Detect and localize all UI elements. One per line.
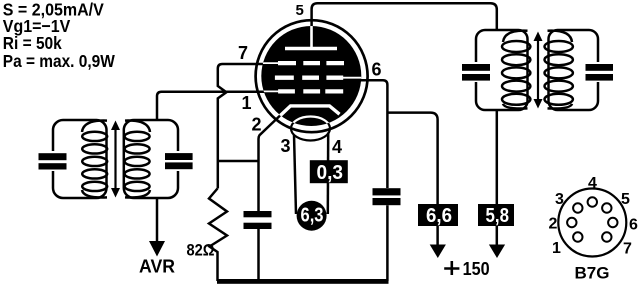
resistor 82ohm [209, 189, 227, 282]
B7G pin 7 [602, 232, 611, 241]
value box 5,8 [478, 204, 514, 226]
grid g3 row [261, 62, 279, 64]
capacitor left of right transformer [473, 62, 480, 82]
svg-text:0,3: 0,3 [317, 162, 344, 184]
arrow 5,8 to +150 [496, 226, 499, 247]
svg-text:82Ω: 82Ω [187, 241, 215, 260]
svg-text:1: 1 [242, 93, 252, 113]
wire pin2 cathode down [259, 116, 281, 211]
left transformer primary coil [82, 121, 107, 198]
cathode capacitor [257, 229, 260, 281]
B7G pin 5 [602, 203, 611, 212]
+150 label [444, 261, 459, 275]
grid g1 row [261, 90, 279, 92]
wire pin7 down to resistor [218, 64, 264, 189]
right transformer secondary coil [545, 31, 573, 109]
B7G base outline [558, 189, 626, 257]
svg-text:B7G: B7G [575, 264, 610, 283]
anode lead [310, 26, 313, 49]
capacitor right of left transformer [176, 151, 183, 171]
svg-text:5,8: 5,8 [486, 205, 510, 227]
arrow 6,6 to +150 [436, 226, 439, 247]
svg-text:2: 2 [252, 115, 262, 135]
svg-text:4: 4 [588, 175, 597, 192]
heater loop white arc [291, 117, 330, 141]
heater loop black arc [291, 117, 330, 141]
B7G pin 1 [573, 232, 582, 241]
svg-text:6,3: 6,3 [301, 205, 324, 227]
svg-text:Pa = max. 0,9W: Pa = max. 0,9W [3, 51, 115, 71]
svg-text:7: 7 [623, 241, 632, 258]
wire cathode junction link [218, 160, 259, 163]
left transformer secondary box [124, 120, 178, 198]
svg-text:4: 4 [332, 137, 342, 157]
svg-text:2: 2 [549, 216, 558, 233]
svg-text:150: 150 [463, 258, 490, 279]
svg-text:5: 5 [621, 191, 630, 208]
right transformer tuning arrow [537, 38, 539, 102]
wire pin5 to right transformer [312, 3, 497, 30]
svg-text:7: 7 [238, 43, 248, 63]
capacitor left (edge patch) [50, 151, 57, 171]
wire heater pin4 [327, 133, 330, 215]
tube electrodes (white on black) [261, 26, 362, 141]
svg-text:AVR: AVR [139, 257, 175, 277]
wire heater pin3 [294, 135, 296, 215]
left transformer secondary coil [125, 121, 150, 198]
svg-text:3: 3 [555, 191, 564, 208]
wire 5,8 from right transformer [496, 110, 499, 204]
cathode [280, 106, 340, 116]
svg-text:6: 6 [629, 217, 638, 234]
B7G pin 6 [608, 218, 617, 227]
left transformer primary box [53, 120, 107, 198]
wire pin6 branch to 6,6 arrow [387, 113, 437, 204]
left transformer tuning arrow [114, 127, 116, 191]
wire pin1 to left transformer [157, 92, 265, 120]
wire pin6 to screen cap [360, 80, 387, 188]
right transformer primary box [476, 30, 528, 110]
right transformer primary coil [502, 31, 530, 109]
svg-text:6: 6 [372, 60, 382, 80]
svg-text:6,6: 6,6 [426, 205, 452, 227]
screen decoupling capacitor [386, 205, 389, 281]
right transformer secondary box [549, 30, 599, 110]
B7G pin 3 [573, 203, 582, 212]
B7G pin 2 [567, 218, 576, 227]
tube V1 envelope outer circle [256, 20, 368, 132]
AVR arrow [149, 241, 165, 257]
svg-text:1: 1 [552, 240, 561, 257]
anode plate [285, 47, 337, 51]
value circle 6,3 [297, 201, 327, 231]
tube V1 inner disc [261, 26, 361, 126]
capacitor right of right transformer [595, 62, 602, 82]
value box 0,3 [310, 160, 348, 183]
B7G pin 4 [588, 197, 597, 206]
ground rail [217, 279, 389, 284]
wire AVR [156, 198, 159, 243]
grid g2 row [275, 76, 343, 80]
svg-text:5: 5 [296, 2, 304, 19]
value box 6,6 [418, 204, 458, 226]
svg-text:3: 3 [281, 136, 291, 156]
